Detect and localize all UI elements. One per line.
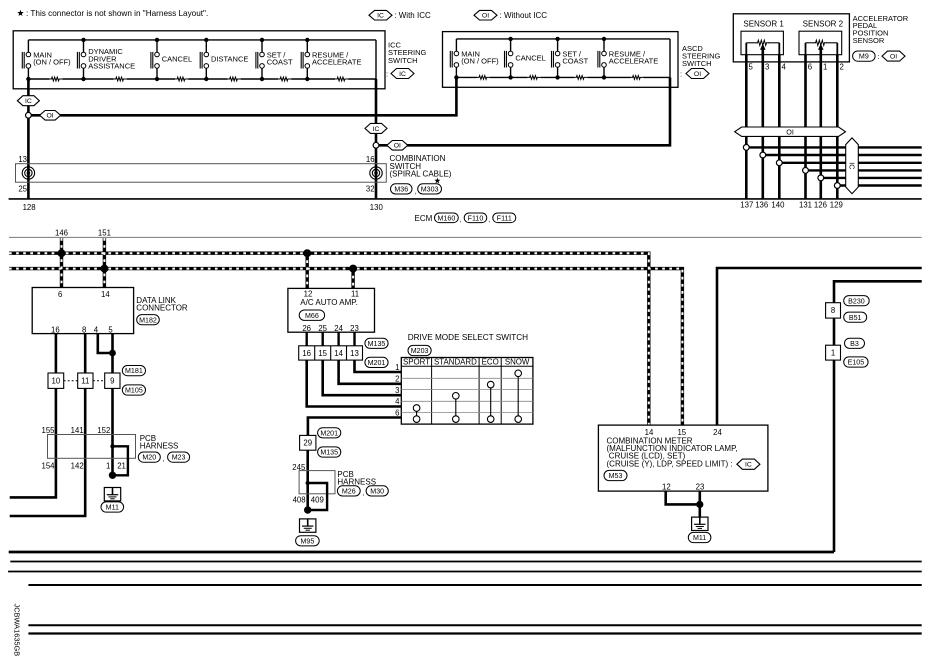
wire 24 to row 2	[339, 360, 402, 384]
svg-text:IC: IC	[847, 162, 856, 169]
CAN bus line 2 black (to meter pin 15)	[9, 269, 682, 426]
wire right edge to connectors 8 and 1	[834, 281, 922, 552]
svg-text:6: 6	[395, 408, 399, 417]
svg-text:M95: M95	[300, 537, 314, 545]
branch wire 6 to right edge	[837, 184, 921, 186]
svg-text:OI: OI	[694, 71, 701, 78]
IC hexagon left	[17, 96, 39, 106]
ICC inner bottom bus	[28, 78, 376, 80]
svg-text:M181: M181	[125, 367, 143, 375]
svg-text:OI: OI	[47, 113, 54, 120]
svg-text:25: 25	[18, 185, 27, 194]
svg-text:M9: M9	[859, 53, 869, 61]
svg-text:15: 15	[677, 428, 686, 437]
IC hexagon right	[365, 123, 387, 133]
svg-text:1: 1	[823, 63, 827, 72]
svg-text:: This connector is not shown: : This connector is not shown in "Harnes…	[26, 9, 208, 18]
svg-text:,: ,	[162, 456, 164, 463]
node circle sensor wire 4	[803, 168, 809, 174]
svg-text:ECO: ECO	[482, 358, 499, 367]
CAN bus line 1 white dashes	[9, 253, 649, 425]
APP sensor wire pin 3	[761, 49, 764, 199]
ICC inner top bus	[28, 39, 376, 41]
APP sensor wire pin 5	[745, 55, 748, 199]
ICC switch DISTANCE	[205, 40, 207, 52]
SENSOR 1 potentiometer	[757, 40, 769, 45]
svg-text:12: 12	[304, 289, 313, 298]
svg-text:13: 13	[18, 155, 27, 164]
wire DLC 8 down-left	[10, 334, 86, 516]
svg-text:ASSISTANCE: ASSISTANCE	[88, 62, 135, 71]
ground symbol M11 left	[104, 488, 120, 501]
svg-text:M160: M160	[438, 214, 456, 222]
joint connector 1	[826, 345, 841, 360]
wire ICC right output to pin 16	[375, 79, 378, 199]
ASCD inner right vertical	[669, 39, 671, 78]
node circle sensor wire 6	[834, 183, 840, 189]
wire DLC 5 down to ground	[111, 334, 114, 476]
CAN drop A/C amp 11 black	[351, 269, 354, 289]
svg-text:OI: OI	[890, 54, 897, 61]
M135 oval at 29	[318, 447, 341, 457]
svg-text:M135: M135	[368, 340, 386, 348]
svg-text:ACCELERATE: ACCELERATE	[312, 58, 361, 67]
svg-text:CANCEL: CANCEL	[162, 54, 192, 63]
combination switch box	[16, 164, 387, 183]
svg-text:137: 137	[740, 201, 753, 210]
wire meter pin 24 from right edge	[717, 268, 922, 425]
svg-text:M203: M203	[411, 347, 429, 355]
ICC resistor 5	[278, 77, 291, 81]
svg-text:: Without ICC: : Without ICC	[500, 11, 548, 20]
junction dot in PCB box	[110, 444, 114, 448]
svg-text:10: 10	[52, 377, 61, 386]
ICC switch RESUME	[306, 40, 308, 52]
wire 25 to row 3	[323, 360, 402, 395]
node right IC/OI split	[373, 142, 379, 148]
ASCD resistor 3	[574, 76, 587, 80]
M11 oval meter	[688, 532, 711, 542]
ICC switch CANCEL	[156, 40, 158, 52]
branch wire 3 to right edge	[779, 162, 921, 164]
ASCD switch 4	[603, 39, 605, 51]
svg-text:140: 140	[771, 201, 785, 210]
svg-text:M23: M23	[172, 454, 186, 462]
svg-text:SNOW: SNOW	[505, 358, 530, 367]
svg-text:M105: M105	[125, 387, 143, 395]
svg-text:M20: M20	[142, 454, 156, 462]
branch wire 1 to right edge	[746, 146, 921, 148]
svg-text:(ON / OFF): (ON / OFF)	[461, 57, 499, 66]
svg-text:F111: F111	[497, 214, 512, 222]
ASCD inner bottom bus	[456, 76, 670, 78]
svg-text:26: 26	[302, 324, 311, 333]
ASCD switch 3	[557, 39, 559, 51]
svg-text:4: 4	[94, 325, 99, 334]
joint link 11-9	[93, 380, 105, 382]
svg-text:11: 11	[351, 289, 359, 298]
branch wire 4 to right edge	[806, 169, 922, 171]
note star symbol	[17, 10, 23, 16]
APP sensor outer box	[733, 14, 849, 62]
spiral cable symbol right	[370, 167, 382, 179]
svg-text:IC: IC	[377, 13, 384, 20]
svg-text:,: ,	[362, 490, 364, 497]
M20 oval	[138, 452, 160, 462]
combination switch star	[434, 178, 440, 184]
ASCD switch 2	[510, 39, 512, 51]
svg-text:129: 129	[830, 201, 843, 210]
M95 oval	[296, 536, 320, 546]
wire DLC 16 down-left	[10, 334, 56, 498]
SENSOR 2 potentiometer	[815, 40, 827, 45]
svg-text:M11: M11	[693, 534, 706, 542]
M201 oval bottom	[365, 357, 388, 367]
ASCD resistor 1	[477, 76, 490, 80]
ICC switch MAIN	[27, 40, 29, 52]
M53 oval	[604, 470, 627, 480]
svg-text:SWITCH: SWITCH	[682, 59, 712, 68]
svg-text:M53: M53	[609, 472, 623, 480]
CAN bus line 1 black (to meter pin 14)	[9, 253, 649, 425]
wire 23 to row 1	[355, 360, 402, 372]
svg-text:2: 2	[395, 374, 399, 383]
switch contact STANDARD	[455, 399, 457, 416]
svg-text:1: 1	[106, 461, 110, 470]
PCB harness box middle	[299, 471, 335, 494]
junction dot CAN2 x11	[349, 265, 357, 273]
svg-text:: With ICC: : With ICC	[394, 11, 431, 20]
ground merge dot M11 left	[109, 472, 116, 479]
svg-text:,: ,	[415, 189, 417, 196]
svg-text:CONNECTOR: CONNECTOR	[136, 304, 188, 313]
joint connector 8	[826, 303, 841, 318]
B230 oval	[844, 296, 870, 306]
IC vertical hexagon	[846, 138, 859, 194]
svg-text:14: 14	[645, 428, 654, 437]
ICC switch DYNAMIC	[83, 40, 85, 52]
data link connector box	[32, 288, 133, 334]
svg-text:126: 126	[814, 201, 827, 210]
ground merge dot M95	[304, 506, 311, 513]
svg-text:152: 152	[97, 426, 110, 435]
E105 oval	[844, 357, 868, 367]
APP sensor wire pin 4	[778, 55, 781, 199]
APP sensor wire pin 1	[819, 49, 822, 199]
svg-text:SENSOR 1: SENSOR 1	[743, 19, 784, 28]
F111 oval	[493, 213, 516, 223]
svg-text:M201: M201	[368, 359, 386, 367]
svg-text:8: 8	[82, 325, 86, 334]
table row lines	[401, 377, 533, 379]
branch wire 5 to right edge	[821, 177, 922, 179]
M182 oval	[137, 315, 160, 325]
svg-text:146: 146	[55, 229, 68, 238]
wires A/C amp to connector row	[306, 332, 308, 346]
svg-text:IC: IC	[399, 71, 406, 78]
ICC resistor 3	[175, 77, 188, 81]
svg-text:IC: IC	[25, 98, 32, 105]
svg-text:M135: M135	[320, 449, 338, 457]
M36 oval	[391, 184, 413, 194]
bottom rail line 2	[8, 571, 922, 573]
node left IC/OI split	[26, 112, 32, 118]
svg-text:3: 3	[395, 386, 399, 395]
svg-text:M30: M30	[370, 487, 384, 495]
svg-text:136: 136	[755, 201, 768, 210]
svg-text:M303: M303	[421, 185, 439, 193]
ASCD steering switch outer box	[443, 32, 679, 88]
combination meter box	[598, 425, 768, 491]
svg-text:155: 155	[41, 426, 55, 435]
PCB harness box left	[48, 435, 136, 459]
svg-text:OI: OI	[482, 13, 489, 20]
wire DLC 4 joins 5	[98, 334, 113, 353]
branch wire 2 to right edge	[763, 154, 922, 156]
svg-text:141: 141	[71, 426, 84, 435]
ASCD inner top bus	[456, 38, 670, 40]
wire meter pin 23 to ground	[698, 491, 701, 517]
svg-text::: :	[680, 70, 682, 79]
svg-text:ACCELERATE: ACCELERATE	[609, 57, 658, 66]
svg-text:4: 4	[782, 63, 787, 72]
APP sensor M9 oval	[853, 51, 876, 61]
switch contact SPORT	[416, 411, 418, 416]
svg-text:COAST: COAST	[267, 58, 293, 67]
switch contact ECO	[490, 388, 492, 416]
junction dot in PCB box middle	[306, 481, 310, 485]
joint connector 9	[105, 373, 120, 388]
svg-text:M182: M182	[139, 316, 157, 324]
wire 26 to row 4	[307, 360, 402, 406]
ASCD resistor 2	[528, 76, 541, 80]
ASCD switch 1	[455, 39, 457, 51]
svg-text:DRIVE MODE SELECT SWITCH: DRIVE MODE SELECT SWITCH	[408, 333, 528, 342]
svg-text:(SPIRAL CABLE): (SPIRAL CABLE)	[390, 169, 452, 178]
svg-text:SPORT: SPORT	[403, 358, 430, 367]
svg-text:11: 11	[81, 377, 89, 386]
spiral cable symbol left	[22, 167, 34, 179]
CAN drop 151 black	[103, 238, 106, 288]
svg-text:M26: M26	[342, 487, 356, 495]
svg-text:SENSOR 2: SENSOR 2	[803, 19, 844, 28]
svg-text:16: 16	[302, 349, 311, 358]
svg-text:6: 6	[808, 63, 812, 72]
OI hexagon right	[387, 141, 408, 151]
svg-text:21: 21	[117, 461, 126, 470]
ground symbol meter M11	[692, 517, 708, 530]
svg-text:(ON / OFF): (ON / OFF)	[33, 58, 71, 67]
M105 oval	[122, 385, 145, 395]
svg-text:A/C AUTO AMP.: A/C AUTO AMP.	[300, 298, 358, 307]
svg-text:409: 409	[311, 495, 324, 504]
CAN drop 146 white dashes	[61, 238, 63, 288]
OI hexagon left	[40, 111, 61, 121]
svg-text:SWITCH: SWITCH	[388, 56, 418, 65]
svg-text::: :	[878, 52, 880, 61]
node circle sensor wire 2	[760, 152, 766, 158]
M23 oval	[168, 452, 190, 462]
svg-text:B230: B230	[848, 297, 865, 305]
wire ICC left output to pin 13	[27, 79, 30, 199]
svg-text:1: 1	[395, 363, 399, 372]
joint link 10-11	[64, 380, 78, 382]
svg-text:3: 3	[765, 63, 769, 72]
svg-text:131: 131	[799, 201, 812, 210]
bottom rail line 5	[28, 632, 921, 634]
bottom rail line 3	[28, 584, 921, 586]
M66 oval	[299, 310, 324, 320]
ASCD resistor 4	[631, 76, 644, 80]
APP sensor wire pin 2	[836, 55, 839, 199]
long wire bottom loop	[9, 551, 834, 554]
svg-text:154: 154	[41, 461, 55, 470]
svg-text:32: 32	[366, 185, 375, 194]
svg-text:5: 5	[108, 325, 113, 334]
junction dot 4/5	[109, 350, 116, 357]
svg-text:16: 16	[51, 325, 60, 334]
svg-text:JCBWA1635GB: JCBWA1635GB	[13, 604, 22, 657]
ICC resistor 2	[114, 77, 127, 81]
connector row 16/15/14/13 boxes	[299, 346, 363, 360]
bottom rail line 4	[28, 624, 921, 626]
svg-text::: :	[386, 70, 388, 79]
M181 oval	[122, 366, 145, 376]
B51 oval	[844, 312, 867, 322]
CAN drop 151 white dashes	[103, 238, 105, 288]
joint connector 10	[48, 373, 64, 388]
ICC steering switch outer box	[13, 31, 385, 89]
joint connector 11	[78, 373, 93, 388]
svg-text:COAST: COAST	[562, 57, 588, 66]
table header line	[401, 365, 533, 367]
svg-text:F110: F110	[468, 214, 484, 222]
A/C auto amp box	[288, 288, 375, 332]
ECM box bottom line	[9, 236, 922, 238]
M26 oval	[337, 486, 360, 496]
svg-text:23: 23	[696, 482, 705, 491]
F110 oval	[464, 213, 487, 223]
svg-text:130: 130	[370, 203, 384, 212]
svg-text:5: 5	[749, 63, 754, 72]
svg-text:14: 14	[334, 349, 343, 358]
svg-text:13: 13	[350, 349, 359, 358]
ICC resistor 6	[335, 77, 348, 81]
B3 oval	[845, 338, 865, 348]
ICC switch SET	[261, 40, 263, 52]
wire row 6 to connector 29	[308, 418, 401, 436]
APP sensor wire pin 6	[804, 55, 807, 199]
svg-text:M36: M36	[394, 185, 408, 193]
M160 oval	[435, 213, 459, 223]
table column lines	[431, 358, 433, 425]
svg-text:9: 9	[110, 377, 114, 386]
ground merge dot meter M11	[696, 501, 703, 508]
OI wide hexagon	[735, 127, 846, 136]
ECM box top line	[9, 198, 922, 200]
drive mode table frame	[401, 358, 533, 425]
svg-text:(CRUISE (Y), LDP, SPEED LIMIT): (CRUISE (Y), LDP, SPEED LIMIT) :	[607, 459, 733, 468]
meter IC hexagon	[737, 459, 760, 469]
svg-text:14: 14	[101, 290, 110, 299]
svg-text:HARNESS: HARNESS	[140, 442, 179, 451]
svg-text:M201: M201	[320, 429, 338, 437]
node circle sensor wire 3	[776, 160, 782, 166]
CAN drop A/C amp 12 black	[306, 253, 309, 288]
svg-text:142: 142	[71, 461, 84, 470]
svg-text:E105: E105	[848, 359, 865, 367]
node circle sensor wire 1	[743, 145, 749, 151]
M201 oval at 29	[318, 428, 341, 438]
SENSOR 1 inner box	[741, 31, 783, 55]
svg-text:2: 2	[840, 63, 844, 72]
svg-text:HARNESS: HARNESS	[337, 478, 376, 487]
svg-text:B51: B51	[849, 314, 862, 322]
svg-text:29: 29	[303, 439, 312, 448]
M11 oval left	[101, 502, 124, 512]
svg-text:6: 6	[58, 290, 62, 299]
wire OI branch right to ASCD output	[376, 77, 670, 145]
svg-text:M66: M66	[305, 312, 319, 320]
svg-text:M11: M11	[106, 504, 119, 512]
bottom rail line 1	[10, 561, 921, 563]
legend IC hexagon	[369, 10, 392, 20]
svg-text:408: 408	[293, 495, 306, 504]
svg-text:,: ,	[460, 217, 462, 224]
junction dot CAN2 x151	[100, 265, 108, 273]
svg-text:OI: OI	[786, 127, 794, 136]
svg-text:12: 12	[662, 482, 671, 491]
svg-text:,: ,	[488, 217, 490, 224]
ICC resistor 4	[228, 77, 241, 81]
svg-text:B3: B3	[850, 340, 859, 348]
svg-text:151: 151	[98, 229, 111, 238]
joint connector 29	[300, 435, 316, 450]
svg-text:1: 1	[831, 348, 835, 357]
svg-text:16: 16	[366, 155, 375, 164]
ICC resistor 1	[49, 77, 62, 81]
branch wire pin 409	[308, 483, 327, 510]
M203 oval	[408, 345, 431, 355]
M303 oval	[418, 184, 442, 194]
svg-text:SENSOR: SENSOR	[853, 36, 885, 45]
switch contact SNOW	[517, 377, 519, 416]
ground symbol M95	[300, 519, 316, 532]
svg-text:OI: OI	[394, 143, 401, 150]
svg-text:8: 8	[831, 306, 835, 315]
svg-text:IC: IC	[745, 462, 752, 469]
svg-text:IC: IC	[373, 126, 380, 133]
branch wire pin 21	[113, 446, 128, 475]
svg-text:STANDARD: STANDARD	[434, 358, 477, 367]
svg-text:15: 15	[318, 349, 327, 358]
svg-text:4: 4	[395, 397, 400, 406]
svg-text:ECM: ECM	[415, 214, 433, 223]
svg-text:CANCEL: CANCEL	[515, 53, 545, 62]
CAN drop A/C amp 12 white dashes	[306, 253, 308, 288]
CAN drop 146 black	[60, 238, 63, 288]
svg-text:DISTANCE: DISTANCE	[211, 54, 248, 63]
CAN drop A/C amp 11 white dashes	[352, 269, 354, 289]
svg-text:128: 128	[23, 203, 36, 212]
svg-text:23: 23	[350, 324, 359, 333]
svg-text:25: 25	[318, 324, 327, 333]
junction dot CAN1 x146	[58, 249, 66, 257]
legend OI hexagon	[474, 10, 497, 20]
CAN bus line 2 white dashes	[9, 269, 682, 426]
wire OI branch left to ASCD MAIN	[28, 77, 456, 115]
svg-text:24: 24	[713, 428, 722, 437]
